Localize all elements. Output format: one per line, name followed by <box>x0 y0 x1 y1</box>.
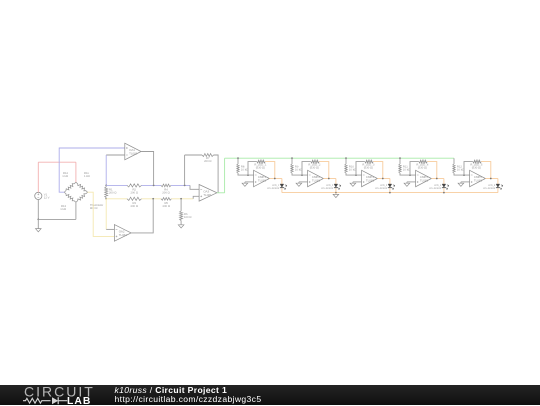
wire OA3 feedback left riser <box>184 155 186 185</box>
wire block 5 input stub <box>453 158 455 164</box>
svg-text:10 kΩ: 10 kΩ <box>241 169 248 172</box>
LED LED_4 <box>442 184 446 187</box>
wire block 4 to comparator input <box>400 173 416 175</box>
wire block 4 non-inverting input to ground <box>407 181 416 183</box>
svg-text:LFL-3XXXX: LFL-3XXXX <box>321 187 334 190</box>
node junction feedback tap <box>184 185 186 187</box>
svg-text:1 kΩ: 1 kΩ <box>60 208 66 211</box>
svg-text:200 Ω: 200 Ω <box>162 192 169 195</box>
wire bottom rail to bridge <box>38 218 76 220</box>
node junction block 1 feedback tap <box>247 174 249 176</box>
thermistor RT1 bridge bottom-right arm <box>76 192 88 202</box>
wire into OA3 non-inverting input <box>193 196 199 199</box>
wire yellow vertical to OA2 inverting input <box>105 199 107 230</box>
svg-text:(530 Ω): (530 Ω) <box>472 167 481 170</box>
wire feedback top right riser <box>214 155 219 193</box>
svg-text:(530 Ω): (530 Ω) <box>364 167 373 170</box>
node junction OA1 output on blue rail <box>153 185 155 187</box>
node junction block 5 feedback tap <box>463 174 465 176</box>
resistor R11 bridge top-right arm <box>76 182 88 192</box>
wire block 5 output <box>485 178 498 180</box>
wire block 3 feedback to output <box>373 162 383 179</box>
node junction orange bus LED_4 <box>443 192 445 194</box>
svg-text:10 kΩ: 10 kΩ <box>349 169 356 172</box>
wire block 4 feedback riser <box>410 162 419 176</box>
wire block 3 input stub <box>345 158 347 164</box>
wire yellow rail segment 2 <box>142 198 162 200</box>
svg-text:TL081: TL081 <box>119 233 128 237</box>
node junction OA2 output on yellow rail <box>152 198 154 200</box>
wire V1 top to red net <box>37 162 39 192</box>
wire block 2 feedback riser <box>302 162 311 176</box>
svg-text:TL081: TL081 <box>203 193 212 197</box>
resistor R10 block 3 input <box>345 164 347 173</box>
wire yellow rail segment 1 <box>106 198 127 200</box>
op-amp OA1 <box>125 143 141 160</box>
wire block 1 output <box>269 178 282 180</box>
node junction green bus block 4 <box>399 157 401 159</box>
CircuitLab logo <box>0 385 110 406</box>
wire block 4 input stub <box>399 158 401 164</box>
node junction R1 top <box>105 185 107 187</box>
wire feedback top left <box>185 154 202 156</box>
node junction green bus block 3 <box>345 157 347 159</box>
wire green bus <box>225 157 454 159</box>
svg-text:800 Ω: 800 Ω <box>90 207 97 210</box>
wire block 5 to comparator input <box>454 173 470 175</box>
node junction block 1 output <box>274 178 276 180</box>
node junction R1 bottom on yellow rail <box>105 198 107 200</box>
svg-text:200 Ω: 200 Ω <box>130 205 137 208</box>
wire V1 bottom <box>37 200 39 220</box>
svg-text:(530 Ω): (530 Ω) <box>418 167 427 170</box>
svg-text:LFL-3XXXX: LFL-3XXXX <box>267 187 280 190</box>
node junction orange bus LED_2 <box>335 192 337 194</box>
resistor R9 block 2 input <box>291 164 293 173</box>
footer text <box>115 386 262 404</box>
svg-text:100 Ω: 100 Ω <box>184 216 191 219</box>
resistor R6 <box>180 199 182 211</box>
wire blue rail segment 3 <box>171 184 190 186</box>
wire blue rail segment 2 <box>142 184 162 186</box>
wire block 4 output <box>431 178 444 180</box>
node junction at V1 bottom <box>37 219 39 221</box>
wire LED_3 cathode to bus <box>389 188 391 192</box>
resistor R2 <box>127 184 142 187</box>
resistor R_LED_1 feedback <box>257 160 266 163</box>
wire block 5 output down to LED <box>497 179 499 185</box>
wire stub OA2 inverting input <box>106 228 114 230</box>
wire block 2 output down to LED <box>335 179 337 185</box>
wire block 3 to comparator input <box>346 173 362 175</box>
wire block 3 output <box>377 178 390 180</box>
op-amp OA3 <box>199 185 217 202</box>
wire OA1 inverting input <box>106 154 125 156</box>
logo diode glyph <box>52 397 58 404</box>
svg-text:10 kΩ: 10 kΩ <box>403 169 410 172</box>
svg-text:LED_4: LED_4 <box>434 184 442 187</box>
resistor R_LED_4 feedback <box>419 160 428 163</box>
node junction green bus block 1 <box>237 157 239 159</box>
op-amp OA2 <box>114 225 131 242</box>
node junction R6 tap <box>180 198 182 200</box>
wire red top rail <box>38 161 76 163</box>
resistor R8 block 1 input <box>237 164 239 173</box>
svg-text:LED_2: LED_2 <box>326 184 334 187</box>
wire blue rail segment 1 <box>106 184 127 186</box>
wire bridge right to yellow net <box>88 192 115 236</box>
wire green riser <box>224 158 226 193</box>
svg-text:TL081: TL081 <box>258 179 267 183</box>
svg-text:LFL-3XXXX: LFL-3XXXX <box>429 187 442 190</box>
svg-text:(530 Ω): (530 Ω) <box>310 167 319 170</box>
resistor R_LED_2 feedback <box>311 160 320 163</box>
svg-text:LED_3: LED_3 <box>380 184 388 187</box>
svg-text:LFL-3XXXX: LFL-3XXXX <box>375 187 388 190</box>
wire block 3 non-inverting input to ground <box>353 181 362 183</box>
svg-text:LED_1: LED_1 <box>272 184 280 187</box>
wire block 5 feedback riser <box>464 162 473 176</box>
LED LED_3 <box>388 184 392 187</box>
wire block 5 non-inverting input to ground <box>461 181 470 183</box>
wire orange bottom bus <box>282 192 498 194</box>
LED LED_1 <box>280 184 284 187</box>
resistor R12 bridge top-left arm <box>64 182 76 192</box>
op-amp CMP3 <box>362 170 378 186</box>
node junction block 3 feedback tap <box>355 174 357 176</box>
svg-text:LFL-3XXXX: LFL-3XXXX <box>483 187 496 190</box>
resistor R7 feedback <box>202 154 214 157</box>
svg-text:TL081: TL081 <box>129 152 138 156</box>
svg-text:TL081: TL081 <box>366 179 375 183</box>
svg-text:200 Ω: 200 Ω <box>204 160 211 163</box>
ground block 4 <box>406 182 408 183</box>
wire blue vertical to rail <box>105 155 107 185</box>
wire block 1 input stub <box>237 158 239 164</box>
wire block 1 feedback to output <box>265 162 275 179</box>
resistor R1 <box>105 185 107 186</box>
svg-text:200 Ω: 200 Ω <box>109 191 116 194</box>
op-amp CMP2 <box>308 170 324 186</box>
wire red down to bridge top <box>75 162 77 182</box>
ground block 5 <box>460 182 462 183</box>
node junction block 5 output <box>490 178 492 180</box>
wire OA1 output <box>141 152 154 186</box>
wire LED_4 cathode to bus <box>443 188 445 192</box>
footer bar <box>0 385 540 406</box>
wire block 1 non-inverting input to ground <box>245 181 254 183</box>
node junction block 4 output <box>436 178 438 180</box>
wire block 5 feedback to output <box>481 162 491 179</box>
svg-text:10 kΩ: 10 kΩ <box>295 169 302 172</box>
wire block 2 feedback to output <box>319 162 329 179</box>
wire block 2 output <box>323 178 336 180</box>
wire block 1 output down to LED <box>281 179 283 185</box>
wire block 2 input stub <box>291 158 293 164</box>
resistor R_LED_3 feedback <box>365 160 374 163</box>
wire to ground <box>37 219 39 228</box>
op-amp CMP4 <box>416 170 432 186</box>
node junction green bus block 2 <box>291 157 293 159</box>
wire block 1 to comparator input <box>238 173 254 175</box>
wire block 1 feedback riser <box>248 162 257 176</box>
svg-text:LED_5: LED_5 <box>488 184 496 187</box>
logo resistor glyph <box>23 398 51 403</box>
wire OA2 output <box>131 199 153 233</box>
resistor R_LED_5 feedback <box>473 160 482 163</box>
resistor R4 <box>161 184 171 187</box>
svg-text:12 V: 12 V <box>44 197 50 200</box>
svg-text:1 kΩ: 1 kΩ <box>84 175 90 178</box>
voltage source V1 <box>35 192 42 199</box>
ground block 1 <box>244 182 246 183</box>
ground below R6 <box>178 225 184 228</box>
wire block 4 feedback to output <box>427 162 437 179</box>
wire LED_2 cathode to bus <box>335 188 337 192</box>
ground on orange bus <box>335 193 337 195</box>
svg-text:TL081: TL081 <box>474 179 483 183</box>
svg-text:10 kΩ: 10 kΩ <box>457 169 464 172</box>
LED LED_2 <box>334 184 338 187</box>
wire block 3 output down to LED <box>389 179 391 185</box>
wire block 3 feedback riser <box>356 162 365 176</box>
resistor R5 <box>161 198 171 201</box>
node junction block 2 output <box>328 178 330 180</box>
svg-text:TL081: TL081 <box>312 179 321 183</box>
wire bridge left to blue net <box>59 148 125 192</box>
resistor R13 bridge bottom-left arm <box>64 192 76 202</box>
wire block 2 to comparator input <box>292 173 308 175</box>
resistor R3 <box>127 197 142 200</box>
ground block 2 <box>298 182 300 183</box>
wire LED_5 cathode to bus <box>497 188 499 192</box>
svg-text:LAB: LAB <box>67 396 91 406</box>
ground below V1 <box>36 229 42 232</box>
LED LED_5 <box>496 184 500 187</box>
op-amp CMP5 <box>470 170 486 186</box>
svg-text:(530 Ω): (530 Ω) <box>256 167 265 170</box>
wire into OA3 inverting input <box>190 185 199 189</box>
node junction block 3 output <box>382 178 384 180</box>
svg-text:200 Ω: 200 Ω <box>130 192 137 195</box>
wire yellow rail segment 3 <box>171 198 193 200</box>
wire bridge bottom down <box>75 202 77 219</box>
wire LED_1 cathode to bus <box>281 188 283 192</box>
op-amp CMP1 <box>254 170 270 186</box>
resistor R11 block 4 input <box>399 164 401 173</box>
wire OA3 output to green net <box>217 192 225 194</box>
resistor R12 block 5 input <box>453 164 455 173</box>
ground block 3 <box>352 182 354 183</box>
wire block 4 output down to LED <box>443 179 445 185</box>
svg-text:200 Ω: 200 Ω <box>162 205 169 208</box>
wire block 2 non-inverting input to ground <box>299 181 308 183</box>
node junction block 4 feedback tap <box>409 174 411 176</box>
node junction orange bus LED_3 <box>389 192 391 194</box>
svg-text:TL081: TL081 <box>420 179 429 183</box>
node junction block 2 feedback tap <box>301 174 303 176</box>
svg-text:1 kΩ: 1 kΩ <box>62 175 68 178</box>
